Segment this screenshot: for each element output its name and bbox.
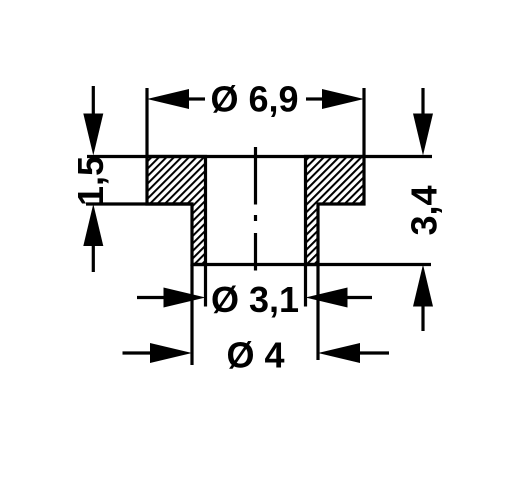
- svg-text:Ø 6,9: Ø 6,9: [210, 79, 298, 120]
- dimension Ø 3,1 extension line right: [304, 265, 307, 307]
- dimension Ø 4 arrow left (points right): [123, 351, 151, 354]
- dimension 3,4 upper leg and arrow (down): [421, 88, 424, 115]
- svg-text:Ø 4: Ø 4: [226, 335, 284, 376]
- dimension Ø 6,9 arrow left: [147, 89, 189, 109]
- wire flange underside extension line (left): [86, 202, 192, 205]
- dimension Ø 4 arrow right (points left): [318, 343, 360, 363]
- wire bottom silhouette line (sleeve bottom, extended right for 3,4): [192, 263, 431, 266]
- svg-text:Ø 3,1: Ø 3,1: [211, 279, 299, 320]
- dimension Ø 6,9 arrow right: [322, 89, 364, 109]
- dimension Ø 3,1 arrow left (points right): [137, 296, 164, 299]
- dimension Ø 6,9 extension line left: [145, 88, 148, 157]
- dimension Ø 4 extension line right: [316, 265, 319, 361]
- dimension Ø 3,1 extension line left: [204, 265, 207, 307]
- dimension 3,4 lower leg and arrow (up): [413, 265, 433, 307]
- dimension Ø 4 extension line left: [190, 265, 193, 366]
- dimension Ø 6,9 extension line right: [362, 88, 365, 157]
- svg-text:3,4: 3,4: [404, 185, 445, 235]
- bushing section right (flange + sleeve wall, hatched): [306, 157, 365, 265]
- wire top silhouette line (flange top, extended left for 1,5 and right for 3,4): [87, 155, 432, 158]
- dimension 1,5 lower leg and arrow (up): [83, 204, 103, 246]
- svg-text:1,5: 1,5: [70, 156, 111, 206]
- dimension Ø 3,1 arrow right (points left): [306, 288, 348, 308]
- dimension 1,5 upper leg and arrow (down): [92, 86, 95, 115]
- bushing section left (flange + sleeve wall, hatched): [147, 157, 206, 265]
- centerline (dash-dot): [254, 147, 257, 271]
